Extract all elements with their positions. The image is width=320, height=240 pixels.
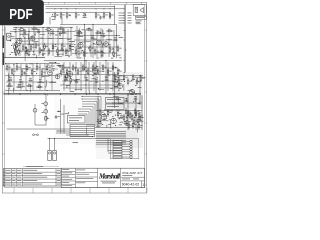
- wire lead column row1R x114: [113, 30, 115, 57]
- wire stub (rightC): [138, 76, 146, 78]
- wire lead column row2L x40: [39, 64, 41, 91]
- junction: [70, 27, 71, 28]
- resistor R73: [127, 80, 129, 83]
- capacitor C6: [62, 31, 66, 33]
- wire stub (row1L knot): [27, 34, 29, 40]
- wire lead column row2L x21: [20, 64, 22, 91]
- value label (row1L): [67, 38, 70, 41]
- resistor R26 (row1L knot): [25, 49, 27, 52]
- wire stub (row1L knot): [24, 53, 26, 61]
- junction (row2L): [9, 83, 10, 84]
- output jack J4: [113, 141, 122, 143]
- value label (row1R): [119, 36, 124, 39]
- value label (row1L): [72, 40, 75, 43]
- resistor R23: [33, 28, 36, 30]
- wire sub-rail 9: [6, 81, 56, 83]
- junction (lowerL): [58, 111, 59, 112]
- wire sub-rail 11: [61, 74, 118, 76]
- output jack J6: [113, 146, 122, 148]
- wire lead column row1 x63: [62, 29, 64, 56]
- value label (lowerR): [118, 112, 120, 115]
- capacitor C26: [97, 120, 101, 122]
- resistor R62: [102, 66, 104, 69]
- triode V5b: [92, 68, 97, 73]
- triode V1b: [30, 36, 35, 41]
- junction (row1L): [15, 31, 16, 32]
- value label (lowerR): [140, 116, 143, 119]
- wire node rail B2: [60, 23, 116, 25]
- junction (row1R): [88, 48, 89, 49]
- value label (lowerR): [104, 118, 106, 121]
- junction (row1L knot): [33, 51, 34, 52]
- capacitor C7: [91, 37, 95, 39]
- value label (lowerR): [96, 125, 100, 128]
- wire rightC top: [113, 75, 143, 77]
- resistor R6 (top rail): [103, 14, 105, 17]
- junction: [124, 72, 125, 73]
- value label (lowerL): [57, 110, 60, 113]
- U1 text 1: [69, 117, 82, 120]
- wire loop link 1: [56, 130, 70, 132]
- wire ribbon 7: [70, 136, 95, 138]
- wire stub (row2L): [49, 65, 55, 67]
- resistor R88: [131, 116, 133, 119]
- value label (row1R): [86, 28, 90, 31]
- relay K2 box: [106, 104, 125, 110]
- junction feed b: [92, 136, 93, 137]
- resistor R27 (row1L knot): [14, 49, 16, 52]
- triode V6b: [129, 89, 134, 94]
- junction (lowerR): [111, 110, 112, 111]
- wire to J3: [54, 139, 56, 151]
- resistor R89: [135, 113, 137, 116]
- value label (rightC): [114, 75, 117, 78]
- wire stub (row1R): [80, 50, 82, 54]
- resistor R12: [30, 46, 32, 49]
- wire stub (row1L): [59, 31, 61, 36]
- value label (rightC): [128, 89, 133, 92]
- junction bus b: [124, 39, 125, 40]
- value label (row2L): [7, 80, 10, 83]
- junction: [54, 8, 55, 9]
- wire ribbon bend R: [94, 125, 96, 138]
- wire stub (row2L): [49, 62, 57, 64]
- wire lead column row2R x108: [107, 62, 109, 91]
- junction: [76, 35, 77, 36]
- wire J1 to grid: [11, 36, 15, 38]
- wire stub (lowerR): [100, 117, 102, 123]
- net label 2: [128, 14, 132, 17]
- wire stub (lowerR): [110, 121, 112, 129]
- wire stub (row2L): [8, 73, 10, 81]
- junction (row2L): [5, 63, 6, 64]
- capacitor C5: [51, 32, 55, 34]
- junction bus x128: [128, 94, 129, 95]
- wire stub (row1L knot): [29, 40, 31, 45]
- junction: [57, 31, 58, 32]
- wire ribbon 2: [70, 126, 95, 128]
- value label (top rails): [51, 15, 54, 18]
- junction (top rails): [57, 15, 58, 16]
- junction (row2L): [9, 88, 10, 89]
- junction (row2R): [118, 70, 119, 71]
- wire row1 vertical x71: [70, 28, 72, 56]
- wire row1 vertical x58: [57, 28, 59, 56]
- svg-text:PDF: PDF: [9, 6, 32, 23]
- wire stub (row2L): [45, 80, 47, 86]
- junction (rightC): [131, 80, 132, 81]
- value label (rightC): [136, 80, 140, 83]
- triode V4b: [55, 74, 60, 79]
- junction: [116, 35, 117, 36]
- junction bus a: [124, 30, 125, 31]
- value label (row2R): [102, 64, 105, 67]
- wire sub-rail 8: [5, 75, 58, 77]
- wire stub (row1L): [49, 31, 51, 36]
- wire stub (row2R): [88, 89, 90, 94]
- wire stub (row1R): [93, 43, 100, 45]
- junction: [15, 27, 16, 28]
- value label (row1L): [48, 37, 52, 40]
- wire stub (row2L): [58, 65, 62, 67]
- ground: [42, 53, 45, 56]
- value label (row1L): [40, 37, 42, 40]
- value label (row2L): [18, 83, 22, 86]
- wire stub (row2L): [29, 84, 31, 92]
- resistor R75: [136, 80, 138, 83]
- resistor R31: [89, 47, 91, 50]
- wire lead column row2L x9: [8, 64, 10, 91]
- wire lead column row2R x76: [75, 62, 77, 91]
- junction: [36, 63, 37, 64]
- resistor R82: [134, 110, 136, 113]
- wire sub-rail 6: [76, 52, 116, 54]
- resistor R81: [129, 114, 131, 117]
- junction (row2R): [85, 84, 86, 85]
- wire feed drop: [107, 139, 109, 152]
- wire lead column row1R x79: [78, 30, 80, 57]
- title sub line: [122, 174, 132, 177]
- junction (lowerR): [104, 113, 105, 114]
- junction (row2R knot): [60, 67, 61, 68]
- wire stub (row1L): [65, 55, 70, 57]
- resistor R72: [123, 76, 125, 79]
- output enclosure box: [111, 139, 139, 159]
- resistor R9: [18, 50, 20, 53]
- resistor R29: [75, 50, 77, 53]
- junction: [54, 138, 55, 139]
- wire elbow drop 2: [98, 99, 100, 126]
- junction (row2L): [38, 87, 39, 88]
- resistor R18: [57, 50, 59, 53]
- value label (top rails): [69, 14, 71, 17]
- resistor R15: [44, 45, 46, 48]
- value label (row1L): [41, 49, 45, 52]
- resistor R94: [123, 116, 125, 119]
- value label (lowerR): [124, 120, 126, 123]
- value label (row2R): [117, 69, 120, 72]
- resistor R48: [41, 71, 43, 74]
- resistor R63: [107, 70, 109, 73]
- wire row1 upper rail: [13, 27, 73, 29]
- junction: [105, 60, 106, 61]
- value label (row1L): [60, 48, 63, 51]
- wire drop HT-A: [114, 6, 116, 25]
- junction (row1L knot): [35, 34, 36, 35]
- wire HT rail B: [46, 8, 125, 10]
- wire stub (row2L): [8, 89, 10, 95]
- wire lead column row1R x97: [96, 30, 98, 57]
- value label (row2R): [92, 77, 96, 80]
- junction (row1R): [75, 30, 76, 31]
- junction (row1L knot): [24, 37, 25, 38]
- junction (rightC): [118, 74, 119, 75]
- wire lead column row1 x48: [47, 29, 49, 56]
- junction (rightC): [124, 81, 125, 82]
- value label (row1L): [69, 40, 73, 43]
- value label (row1L): [59, 32, 62, 35]
- resistor R61: [97, 70, 99, 73]
- value label (row2R): [74, 79, 77, 82]
- value label (row2R): [112, 80, 115, 83]
- resistor R54: [62, 66, 64, 69]
- resistor R55: [66, 70, 68, 73]
- value label (row1L knot): [34, 40, 38, 43]
- resistor R83: [138, 114, 140, 117]
- wire row1 bottom rail: [4, 57, 46, 59]
- resistor R16: [48, 50, 50, 53]
- junction: [124, 17, 125, 18]
- junction (rightC): [118, 90, 119, 91]
- value label (lowerR): [106, 109, 109, 112]
- wire sub-rail 2: [12, 43, 70, 45]
- junction (lowerR): [115, 125, 116, 126]
- wire lead column row2R x64: [63, 62, 65, 91]
- resistor R25: [60, 28, 63, 30]
- wire row1 vertical x43: [42, 28, 44, 56]
- capacitor C16: [85, 79, 89, 81]
- wire lead column row1 x20: [19, 29, 21, 56]
- junction (row2L): [9, 76, 10, 77]
- speaker icon right: [141, 7, 144, 12]
- triode V2a: [78, 42, 83, 47]
- resistor R47: [36, 66, 38, 69]
- wire elbow h 3: [82, 101, 97, 103]
- junction (row1L knot): [29, 38, 30, 39]
- wire lead column row2R x70: [69, 62, 71, 91]
- wire ribbon 1: [70, 124, 95, 126]
- wire stub (row1L): [40, 33, 45, 35]
- wire drop mid: [86, 128, 88, 136]
- resistor R38: [88, 29, 91, 31]
- wire lead column row2R x81: [80, 62, 82, 91]
- svg-text:Marshall: Marshall: [98, 173, 120, 180]
- output jack J7: [113, 148, 122, 150]
- wire lead column row2L x33: [32, 64, 34, 91]
- junction (row1L): [67, 50, 68, 51]
- resistor R91: [128, 124, 130, 127]
- resistor R45: [26, 67, 28, 70]
- wire stub (row2L): [56, 65, 64, 67]
- value label (row1L): [13, 28, 16, 31]
- value label (row1R): [77, 57, 81, 60]
- wire stub (row1L knot): [21, 40, 26, 42]
- value label (row2R): [117, 76, 120, 79]
- junction bus x45: [45, 94, 46, 95]
- wire stub (row1L): [22, 34, 28, 36]
- value label (row1R): [96, 57, 98, 60]
- capacitor C8: [102, 35, 106, 37]
- wire lead column row1 x53: [52, 29, 54, 56]
- wire elbow drop 3: [96, 102, 98, 127]
- wire row2R vert 2: [95, 60, 97, 94]
- junction (rightC): [118, 84, 119, 85]
- resistor R64: [112, 66, 114, 69]
- resistor R33: [101, 52, 103, 55]
- junction (rightC): [134, 79, 135, 80]
- wire ribbon 5: [70, 132, 95, 134]
- wire row2L top rail: [5, 63, 60, 65]
- value label (row2L): [45, 75, 49, 78]
- wire row2R rail: [60, 84, 120, 86]
- wire stub (lowerR): [102, 120, 109, 122]
- value label (lowerR): [120, 121, 124, 124]
- value label (row2L): [22, 85, 25, 88]
- resistor R39: [97, 32, 100, 34]
- junction (lowerR): [112, 116, 113, 117]
- resistor R2 (top rail): [60, 14, 62, 17]
- junction (row2R): [98, 88, 99, 89]
- junction (row1L): [55, 44, 56, 45]
- capacitor C13: [39, 81, 43, 83]
- wire stub (row1R): [101, 43, 103, 47]
- wire neon vertical: [34, 104, 36, 125]
- resistor R32: [94, 50, 96, 53]
- wire out ribbon 4: [96, 136, 126, 138]
- junction (top rails): [61, 14, 62, 15]
- wire sub-rail 7: [5, 68, 58, 70]
- resistor R22: [20, 29, 23, 31]
- resistor R37: [78, 32, 81, 34]
- junction (rightC): [133, 101, 134, 102]
- wire stub (row1L): [61, 32, 67, 34]
- resistor R74: [132, 76, 134, 79]
- output jack J10: [113, 156, 122, 158]
- wire elbow lower h 1: [78, 108, 91, 110]
- junction (row1L): [68, 56, 69, 57]
- junction: [109, 8, 110, 9]
- part number text: [136, 16, 145, 19]
- wire stub (lowerR): [136, 120, 143, 122]
- wire bus stub 3: [119, 17, 125, 19]
- junction (row2R): [102, 81, 103, 82]
- value label (row1L): [59, 37, 63, 40]
- junction bus x136: [136, 94, 137, 95]
- wire stub (row2R): [75, 89, 83, 91]
- wire into jack cluster 2: [108, 152, 113, 154]
- wire heater rail: [46, 11, 111, 13]
- capacitor C14: [65, 79, 69, 81]
- junction: [95, 84, 96, 85]
- value label (row2L): [58, 64, 62, 67]
- junction (rightC): [117, 81, 118, 82]
- wire stub (lowerR): [107, 110, 113, 112]
- wire stub (row1R): [97, 51, 104, 53]
- resistor R80: [125, 110, 127, 113]
- wire lowerR rail 1: [96, 110, 142, 112]
- wire stub (rightC): [118, 98, 120, 104]
- ground: [28, 53, 31, 56]
- value label (row2R knot): [67, 66, 69, 69]
- value label (lowerR): [127, 115, 130, 118]
- F1 label: [42, 102, 45, 105]
- wire stub (row1L knot): [32, 54, 35, 56]
- junction (rightC): [135, 85, 136, 86]
- wire sub-rail 4: [74, 39, 118, 41]
- wire stub (row2L): [26, 75, 30, 77]
- value label (row2R): [107, 74, 111, 77]
- value label (row1R): [120, 57, 122, 60]
- wire stub (rightC): [113, 96, 116, 98]
- wire ribbon bend L: [69, 125, 71, 137]
- junction: [66, 8, 67, 9]
- junction (row1R): [96, 52, 97, 53]
- lamp LP1: [44, 110, 48, 114]
- junction: [100, 35, 101, 36]
- wire elbow h 5: [82, 106, 93, 108]
- junction (row2R): [84, 69, 85, 70]
- value label (lowerR): [125, 124, 129, 127]
- junction (lowerR): [100, 121, 101, 122]
- wire drop B2: [84, 24, 86, 70]
- value label (row2R): [76, 78, 80, 81]
- resistor R66 (row2R knot): [70, 79, 72, 82]
- junction (row1R): [114, 56, 115, 57]
- wire sub-rail 3: [14, 50, 72, 52]
- wire neon link: [35, 124, 46, 126]
- capacitor C17: [95, 81, 99, 83]
- LP1 label: [42, 111, 45, 114]
- resistor R71: [118, 80, 120, 83]
- junction B2: [84, 24, 85, 25]
- junction bus x110: [110, 94, 111, 95]
- wire stub (row1L): [43, 45, 48, 47]
- value label (row1L): [55, 34, 58, 37]
- ground: [15, 53, 18, 56]
- relay K1 box: [106, 98, 125, 104]
- resistor R76: [140, 77, 142, 80]
- junction (lowerR): [134, 117, 135, 118]
- junction (lowerR): [104, 110, 105, 111]
- capacitor C70: [55, 115, 57, 119]
- junction (row1R): [113, 48, 114, 49]
- wire stub (row1L knot): [16, 38, 22, 40]
- value label (lowerR): [105, 115, 107, 118]
- junction (lowerR): [138, 110, 139, 111]
- junction (row1L): [70, 45, 71, 46]
- wire out ribbon 8: [96, 143, 126, 145]
- resistor R69 (row2R knot): [64, 77, 66, 80]
- junction: [103, 8, 104, 9]
- junction: [60, 8, 61, 9]
- value label (lowerL): [65, 112, 69, 115]
- capacitor C3: [23, 32, 27, 34]
- value label (row1R): [78, 53, 81, 56]
- junction (row1L knot): [26, 47, 27, 48]
- neon bulb NE1: [33, 108, 37, 112]
- wire stub (row1L): [31, 36, 33, 39]
- K2 text: [107, 105, 119, 108]
